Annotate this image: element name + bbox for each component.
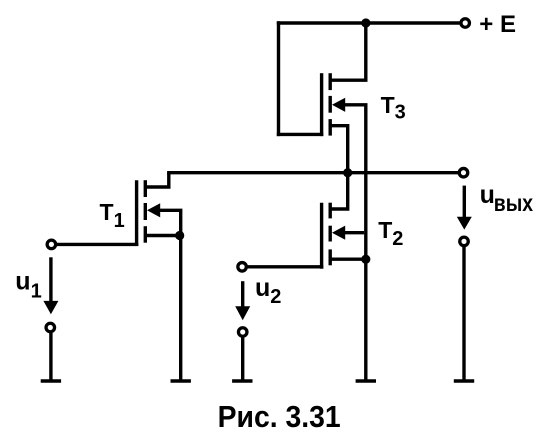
junction: T3 source / T2 drain on output line (343, 168, 352, 177)
svg-text:вых: вых (494, 190, 533, 216)
svg-text:u: u (480, 181, 495, 209)
wire: +E supply rail (277, 21, 460, 24)
terminal: +E (461, 19, 470, 28)
wire: T1 source down to ground (179, 236, 182, 382)
svg-text:Рис. 3.31: Рис. 3.31 (218, 399, 341, 434)
svg-text:T1: T1 (100, 199, 125, 232)
wire: output line (node u_out) (167, 171, 458, 174)
svg-text:u2: u2 (255, 274, 281, 308)
T2 channel: substrate segment (329, 226, 332, 242)
terminal: u1 lower (46, 323, 55, 332)
terminal: u2 input (238, 263, 247, 272)
T2 gate electrode (320, 203, 323, 269)
transistor T3 (322, 73, 346, 136)
terminal: u2 lower (238, 328, 247, 337)
ground: output rail bar (454, 379, 474, 382)
T2 substrate arrow (332, 226, 345, 240)
arrow: u1 voltage (head) (43, 301, 58, 314)
terminal: u1 input (47, 240, 56, 249)
wire: T2 drain up to output line (330, 173, 348, 209)
T2 channel: source segment (329, 249, 332, 265)
ground: u2 rail bar (232, 379, 252, 382)
wire: u1 lower terminal to ground (49, 333, 52, 381)
terminal: u_out lower (460, 237, 469, 246)
wire: rail down-left to T3 gate (vertical) (277, 21, 280, 136)
wire: input u2 to T2 gate (247, 265, 323, 268)
T1 channel: substrate segment (144, 203, 147, 220)
T3 gate electrode (320, 73, 323, 136)
wire: u_out lower terminal to ground (462, 247, 465, 381)
wire: T3 source down to output node (330, 126, 348, 173)
arrow: u_out voltage (head) (457, 217, 472, 230)
T3 channel: source segment (329, 119, 332, 136)
ground: u1 rail bar (41, 379, 61, 382)
arrow: u1 voltage (shaft) (49, 257, 52, 302)
svg-text:T3: T3 (381, 92, 406, 124)
wire: input u1 to T1 gate (57, 243, 139, 246)
terminal: u_out output (459, 168, 468, 177)
wire: substrate/source bus down to ground (364, 105, 367, 381)
T1 channel: source segment (144, 226, 147, 243)
wire: T2 source lead (330, 258, 366, 261)
arrow: u2 voltage (head) (235, 306, 250, 320)
T3 substrate arrow (332, 98, 345, 112)
T1 substrate arrow (147, 203, 160, 217)
wire: T2 substrate lead to bus (344, 231, 365, 234)
ground: bus rail bar (356, 379, 376, 382)
transistor T1 (137, 180, 161, 246)
wire: T3 drain to +E rail (330, 23, 366, 80)
ground: T1 source rail bar (171, 379, 191, 382)
wire: T1 drain up to output line (145, 173, 169, 187)
wire: to T3 gate (horizontal) (277, 133, 324, 136)
transistor T2 (322, 203, 346, 269)
svg-text:T2: T2 (378, 217, 403, 250)
junction: T1 source / substrate (175, 231, 184, 240)
T1 gate electrode (135, 180, 138, 246)
T1 channel: drain segment (144, 180, 147, 197)
arrow: u2 voltage (shaft) (241, 281, 244, 307)
arrow: u_out voltage (shaft) (463, 186, 466, 218)
svg-text:u1: u1 (15, 267, 41, 302)
junction: T3 drain on +E rail (361, 18, 370, 27)
junction: T2 source on bus (361, 255, 370, 264)
wire: T1 source lead (145, 234, 179, 237)
wire: u2 lower terminal to ground (241, 337, 244, 381)
svg-text:+ E: + E (479, 11, 516, 38)
wire: T3 substrate lead (344, 103, 368, 106)
T3 channel: substrate segment (329, 96, 332, 113)
T2 channel: drain segment (329, 203, 332, 219)
wire: T1 substrate to source (159, 210, 181, 235)
T3 channel: drain segment (329, 73, 332, 90)
